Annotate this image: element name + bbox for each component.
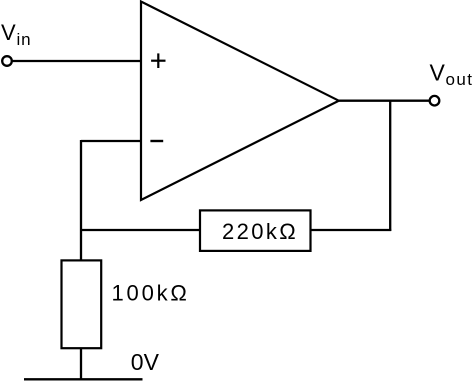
svg-text:100kΩ: 100kΩ	[112, 281, 190, 306]
op-amp U1	[141, 2, 339, 201]
wire feedback horizontal left segment	[80, 229, 200, 231]
node Vin label	[1, 20, 31, 49]
wire feedback horizontal right segment	[311, 229, 392, 231]
svg-text:V: V	[430, 60, 446, 86]
svg-text:out: out	[446, 70, 473, 89]
wire left vertical (inverting node down to R1)	[80, 140, 82, 261]
wire Vin to non-inverting input	[12, 60, 141, 62]
ground	[24, 378, 143, 380]
op-amp plus input marker	[151, 53, 165, 68]
svg-text:in: in	[17, 30, 32, 49]
wire R1 to ground	[80, 348, 82, 379]
svg-text:220kΩ: 220kΩ	[222, 219, 298, 244]
node Vout label	[430, 60, 473, 89]
resistor R2 220k box	[200, 210, 311, 251]
svg-text:V: V	[1, 20, 16, 45]
wire inverting input	[81, 140, 141, 142]
wire feedback vertical	[389, 101, 391, 231]
resistor R1 100k box	[62, 260, 102, 348]
svg-text:0V: 0V	[131, 349, 160, 375]
wire output	[339, 100, 430, 102]
op-amp minus input marker	[150, 140, 163, 142]
input terminal Vin	[2, 56, 12, 66]
output terminal Vout	[430, 96, 440, 106]
